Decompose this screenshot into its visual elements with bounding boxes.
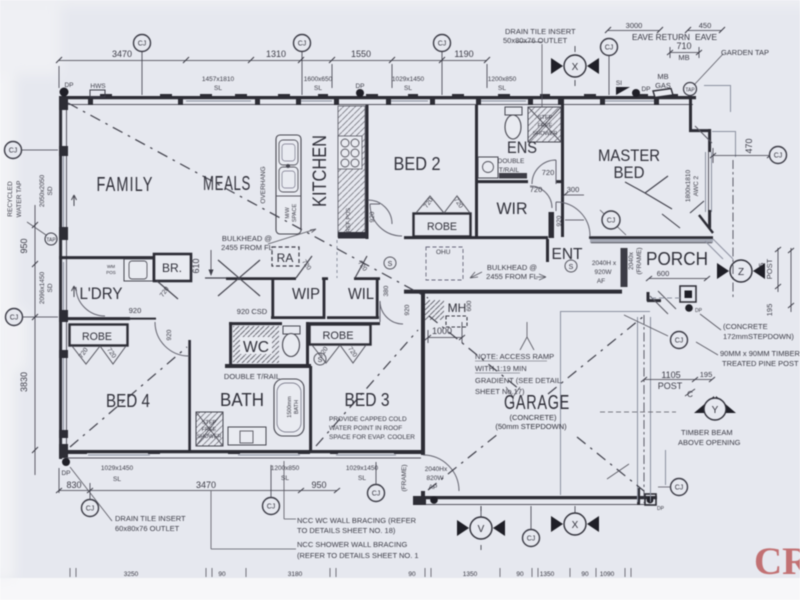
- svg-text:SHOWER: SHOWER: [197, 434, 222, 440]
- svg-text:CJ: CJ: [9, 148, 18, 155]
- svg-text:TO DETAILS SHEET NO. 18): TO DETAILS SHEET NO. 18): [297, 526, 396, 535]
- svg-text:CJ: CJ: [298, 41, 307, 48]
- svg-text:STEP: STEP: [538, 115, 553, 121]
- svg-text:ROBE: ROBE: [323, 330, 354, 342]
- svg-text:710: 710: [676, 41, 691, 51]
- svg-text:ABOVE OPENING: ABOVE OPENING: [678, 438, 741, 447]
- svg-text:3000: 3000: [626, 21, 643, 30]
- svg-text:SL: SL: [113, 476, 121, 483]
- svg-text:DP: DP: [61, 470, 70, 477]
- svg-text:MEALS: MEALS: [203, 173, 251, 195]
- svg-text:AWC 2: AWC 2: [693, 175, 700, 196]
- svg-text:M/W: M/W: [285, 207, 291, 219]
- svg-text:3180: 3180: [288, 571, 303, 578]
- svg-text:90: 90: [408, 571, 416, 578]
- svg-text:SL: SL: [498, 85, 506, 92]
- svg-text:DP: DP: [641, 86, 650, 93]
- svg-text:BATH: BATH: [220, 390, 264, 410]
- svg-text:NCC SHOWER WALL BRACING: NCC SHOWER WALL BRACING: [297, 540, 407, 549]
- svg-text:830: 830: [66, 480, 81, 490]
- svg-text:KITCHEN: KITCHEN: [310, 135, 331, 207]
- svg-text:POST: POST: [658, 381, 683, 391]
- svg-text:1190: 1190: [454, 49, 473, 59]
- svg-text:Z: Z: [738, 267, 744, 278]
- svg-text:Y: Y: [712, 405, 719, 416]
- svg-text:POS: POS: [106, 270, 116, 275]
- svg-text:BATH: BATH: [294, 400, 300, 414]
- svg-text:DOUBLE T/RAIL: DOUBLE T/RAIL: [224, 372, 280, 381]
- svg-text:SI: SI: [616, 80, 622, 87]
- svg-text:WM: WM: [107, 264, 115, 269]
- svg-text:FAMILY: FAMILY: [97, 174, 154, 196]
- svg-text:MB: MB: [678, 53, 689, 62]
- svg-text:MB: MB: [657, 72, 668, 81]
- svg-text:172mmSTEPDOWN): 172mmSTEPDOWN): [723, 332, 794, 341]
- svg-text:WIP: WIP: [292, 286, 320, 303]
- svg-text:S: S: [318, 357, 323, 364]
- svg-text:820W: 820W: [427, 475, 445, 482]
- svg-text:920: 920: [369, 211, 376, 222]
- svg-text:(50mm STEPDOWN): (50mm STEPDOWN): [495, 422, 567, 431]
- svg-text:1200x850: 1200x850: [271, 465, 300, 472]
- svg-text:720: 720: [542, 168, 555, 177]
- svg-text:V: V: [478, 524, 485, 535]
- svg-text:HWS: HWS: [90, 83, 106, 90]
- svg-text:BED 4: BED 4: [106, 391, 150, 411]
- svg-text:470: 470: [744, 138, 754, 153]
- svg-text:920: 920: [404, 304, 411, 315]
- svg-text:MH: MH: [448, 301, 467, 315]
- svg-text:WC: WC: [243, 339, 269, 356]
- svg-text:2455 FROM FL: 2455 FROM FL: [486, 272, 538, 281]
- svg-text:WATER POINT IN ROOF: WATER POINT IN ROOF: [329, 425, 402, 432]
- svg-text:OVERHANG: OVERHANG: [260, 166, 267, 203]
- svg-text:GARDEN TAP: GARDEN TAP: [721, 48, 769, 57]
- svg-text:1000: 1000: [432, 326, 452, 336]
- svg-text:1105: 1105: [661, 370, 680, 380]
- svg-text:(FRAME): (FRAME): [401, 464, 408, 491]
- svg-text:60x80x76 OUTLET: 60x80x76 OUTLET: [115, 524, 180, 533]
- svg-text:WITH 1:19 MIN: WITH 1:19 MIN: [475, 364, 527, 373]
- svg-text:SPACE FOR EVAP. COOLER: SPACE FOR EVAP. COOLER: [329, 434, 415, 441]
- svg-text:CJ: CJ: [607, 218, 616, 225]
- svg-text:CJ: CJ: [86, 506, 95, 513]
- svg-text:3830: 3830: [19, 372, 29, 392]
- svg-text:380: 380: [383, 285, 390, 296]
- svg-text:WATER TAP: WATER TAP: [16, 181, 23, 218]
- svg-text:X: X: [572, 62, 579, 73]
- svg-text:ROBE: ROBE: [427, 221, 457, 233]
- svg-text:CJ: CJ: [10, 315, 19, 322]
- svg-text:920 CSD: 920 CSD: [237, 307, 268, 316]
- svg-text:SHEET No.17): SHEET No.17): [475, 387, 525, 396]
- svg-text:90: 90: [218, 571, 226, 578]
- svg-text:CJ: CJ: [605, 45, 614, 52]
- svg-text:2040H x: 2040H x: [592, 260, 617, 267]
- svg-text:WIL: WIL: [348, 286, 374, 303]
- svg-text:STEP: STEP: [202, 420, 217, 426]
- svg-text:NOTE: ACCESS RAMP: NOTE: ACCESS RAMP: [475, 352, 554, 361]
- svg-text:CJ: CJ: [774, 153, 783, 160]
- svg-text:(CONCRETE): (CONCRETE): [509, 413, 557, 422]
- svg-text:TREATED PINE POST: TREATED PINE POST: [722, 359, 799, 368]
- svg-text:90: 90: [516, 571, 524, 578]
- svg-text:POST: POST: [765, 258, 774, 279]
- svg-text:950: 950: [311, 480, 326, 490]
- svg-text:1500mm: 1500mm: [287, 396, 293, 418]
- svg-text:AF: AF: [597, 278, 605, 285]
- svg-text:DOUBLE: DOUBLE: [498, 158, 525, 165]
- svg-text:610: 610: [191, 258, 201, 273]
- svg-text:BED 2: BED 2: [394, 154, 441, 174]
- svg-text:GRADIENT (SEE DETAIL: GRADIENT (SEE DETAIL: [475, 376, 561, 385]
- svg-text:450: 450: [699, 21, 712, 30]
- svg-text:DP: DP: [355, 83, 364, 90]
- svg-text:195: 195: [700, 370, 713, 379]
- svg-text:90: 90: [581, 571, 589, 578]
- svg-text:OHU: OHU: [436, 249, 451, 256]
- svg-text:(FRAME): (FRAME): [636, 247, 643, 274]
- svg-text:BED: BED: [614, 163, 645, 182]
- svg-text:CJ: CJ: [138, 41, 147, 48]
- svg-text:AP: AP: [429, 484, 438, 491]
- svg-text:DP: DP: [695, 308, 703, 314]
- svg-text:X: X: [572, 520, 579, 531]
- svg-text:T/RAIL: T/RAIL: [499, 167, 520, 174]
- svg-text:CJ: CJ: [675, 338, 684, 345]
- svg-text:RA: RA: [277, 251, 294, 265]
- svg-text:(CONCRETE: (CONCRETE: [723, 322, 768, 331]
- svg-text:920: 920: [166, 329, 173, 340]
- svg-text:2050x2050: 2050x2050: [39, 175, 46, 208]
- svg-text:ENS: ENS: [507, 138, 537, 157]
- svg-text:1029x1450: 1029x1450: [101, 465, 134, 472]
- svg-text:TAP: TAP: [685, 88, 695, 94]
- svg-text:ENT: ENT: [552, 246, 583, 263]
- svg-text:SL: SL: [214, 85, 222, 92]
- svg-text:S: S: [569, 264, 574, 271]
- svg-text:50x80x76 OUTLET: 50x80x76 OUTLET: [503, 36, 568, 45]
- svg-text:FREE: FREE: [538, 123, 553, 129]
- svg-text:SL: SL: [314, 85, 322, 92]
- svg-text:1457x1810: 1457x1810: [202, 76, 235, 83]
- svg-text:BR.: BR.: [162, 261, 182, 275]
- svg-text:SHOWER: SHOWER: [533, 131, 558, 137]
- svg-text:RECYCLED: RECYCLED: [7, 181, 14, 217]
- svg-text:NCC WC WALL BRACING (REFER: NCC WC WALL BRACING (REFER: [297, 516, 417, 525]
- svg-text:920W: 920W: [595, 269, 613, 276]
- svg-text:SL: SL: [281, 475, 289, 482]
- svg-text:S: S: [388, 261, 393, 268]
- svg-text:REF POS: REF POS: [346, 208, 352, 232]
- svg-text:600: 600: [657, 269, 670, 278]
- svg-text:195: 195: [765, 304, 774, 317]
- svg-text:WIR: WIR: [497, 199, 528, 218]
- svg-text:3470: 3470: [196, 480, 216, 490]
- svg-text:600: 600: [466, 300, 473, 311]
- svg-text:CJ: CJ: [438, 41, 447, 48]
- svg-text:950: 950: [19, 238, 29, 253]
- svg-text:PORCH: PORCH: [646, 249, 708, 269]
- svg-text:TIMBER BEAM: TIMBER BEAM: [681, 428, 733, 437]
- svg-text:FREE: FREE: [202, 427, 217, 433]
- svg-text:ROBE: ROBE: [82, 331, 112, 343]
- svg-text:EAVE: EAVE: [695, 32, 717, 42]
- svg-text:BULKHEAD @: BULKHEAD @: [487, 263, 537, 272]
- svg-text:2040x: 2040x: [628, 251, 635, 269]
- svg-text:2455 FROM FL: 2455 FROM FL: [221, 243, 273, 252]
- svg-text:CJ: CJ: [527, 536, 536, 543]
- svg-text:3250: 3250: [124, 571, 139, 578]
- svg-text:DRAIN TILE INSERT: DRAIN TILE INSERT: [505, 27, 576, 36]
- svg-text:SPACE: SPACE: [292, 204, 298, 223]
- svg-text:720: 720: [530, 185, 543, 194]
- svg-text:3470: 3470: [112, 49, 132, 59]
- svg-text:CJ: CJ: [267, 504, 276, 511]
- svg-text:920: 920: [129, 306, 142, 315]
- svg-text:TAP: TAP: [46, 238, 56, 244]
- svg-text:BED 3: BED 3: [345, 390, 390, 410]
- svg-text:CJ: CJ: [675, 485, 684, 492]
- svg-text:2040Hx: 2040Hx: [425, 466, 448, 473]
- svg-text:1029x1450: 1029x1450: [392, 76, 425, 83]
- svg-text:920: 920: [556, 215, 563, 226]
- svg-text:1310: 1310: [266, 49, 286, 59]
- svg-text:1090: 1090: [600, 571, 615, 578]
- svg-text:L'DRY: L'DRY: [80, 284, 123, 303]
- svg-text:SL: SL: [358, 475, 366, 482]
- svg-text:SD: SD: [47, 186, 54, 195]
- svg-text:2096x1450: 2096x1450: [39, 272, 46, 305]
- svg-text:300: 300: [567, 185, 580, 194]
- svg-text:1350: 1350: [540, 571, 555, 578]
- svg-text:CJ: CJ: [372, 491, 381, 498]
- svg-text:PROVIDE CAPPED COLD: PROVIDE CAPPED COLD: [329, 416, 407, 423]
- svg-text:1350: 1350: [463, 571, 478, 578]
- svg-text:1200x850: 1200x850: [488, 76, 517, 83]
- svg-text:SD: SD: [47, 283, 54, 292]
- svg-text:1800x1810: 1800x1810: [685, 170, 692, 203]
- svg-text:SL: SL: [404, 85, 412, 92]
- svg-text:1550: 1550: [351, 49, 371, 59]
- svg-text:CR: CR: [754, 540, 800, 583]
- svg-text:DRAIN TILE INSERT: DRAIN TILE INSERT: [115, 514, 186, 523]
- svg-text:1600x650: 1600x650: [304, 76, 333, 83]
- svg-text:1029x1450: 1029x1450: [346, 465, 379, 472]
- svg-text:BULKHEAD @: BULKHEAD @: [222, 234, 272, 243]
- svg-text:DP: DP: [657, 506, 665, 512]
- svg-text:(REFER TO DETAILS SHEET NO. 1: (REFER TO DETAILS SHEET NO. 1: [297, 551, 419, 560]
- svg-text:90MM x 90MM TIMBER LO: 90MM x 90MM TIMBER LO: [720, 349, 800, 358]
